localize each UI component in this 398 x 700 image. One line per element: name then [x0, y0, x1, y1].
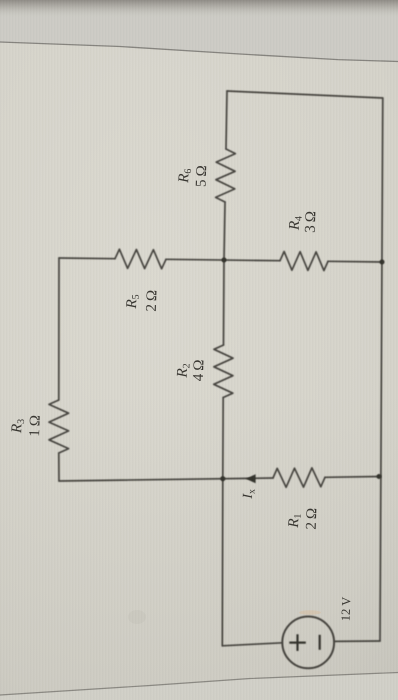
wire: R2 to node B [222, 398, 224, 480]
svg-text:5 Ω: 5 Ω [194, 165, 211, 187]
junction node: middle rail / middle vertical [222, 258, 227, 263]
svg-text:3 Ω: 3 Ω [303, 211, 320, 233]
svg-text:1 Ω: 1 Ω [27, 415, 44, 437]
wire: left branch upper segment [58, 258, 60, 400]
dark band at very top [0, 0, 398, 18]
svg-text:2 Ω: 2 Ω [144, 290, 161, 312]
wire: top edge of outer loop [227, 91, 383, 98]
resistor R6 [216, 149, 236, 202]
wire: lower branch left segment [59, 478, 273, 481]
page edge (top diagonal) [0, 42, 398, 62]
wire: R5 through node A to R4 [166, 259, 280, 260]
wire: node B to bottom-left corner [221, 479, 224, 646]
svg-text:12 V: 12 V [339, 597, 354, 622]
wire: R6 to node A [224, 202, 225, 260]
page edge (bottom diagonal) [0, 673, 398, 700]
junction node: lower branch / right rail [377, 474, 382, 479]
junction node: middle rail / right rail [380, 260, 385, 265]
source minus sign [319, 635, 321, 650]
junction node: lower branch / middle vertical [220, 476, 225, 481]
source plus sign [289, 641, 306, 643]
resistor R5 [115, 249, 166, 269]
faint peach smudge above source [299, 610, 321, 614]
wire: node A to R2 [223, 260, 226, 345]
wire: middle rail upper segment [226, 91, 227, 149]
wire: right rail of outer loop [380, 98, 383, 641]
resistor R3 [49, 400, 69, 453]
wire: bottom rail right of source [334, 640, 380, 642]
faint smudge [128, 610, 146, 624]
resistor R2 [214, 345, 233, 398]
wire: middle branch left segment [59, 257, 115, 260]
wire: R1 to node D [325, 476, 379, 479]
current arrow Ix head [246, 474, 256, 483]
svg-text:2 Ω: 2 Ω [304, 508, 321, 530]
background strip above page edge [0, 0, 398, 62]
resistor R4 [280, 252, 328, 271]
wire: bottom rail left of source [222, 643, 282, 646]
voltage source V 12V circle [282, 617, 334, 669]
wire: R3 to lower-left corner [58, 453, 60, 481]
resistor R1 [273, 468, 325, 487]
wire: R4 to right rail [328, 260, 382, 263]
svg-text:4 Ω: 4 Ω [191, 359, 208, 381]
